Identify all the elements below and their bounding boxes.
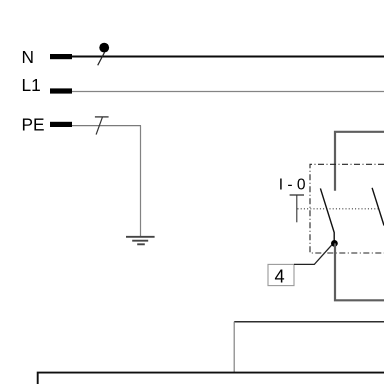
terminal bar PE (50, 122, 72, 127)
wire N (72, 56, 384, 58)
actuator handle bar (290, 194, 304, 196)
svg-text:PE: PE (22, 115, 45, 135)
svg-text:N: N (22, 47, 34, 67)
svg-text:I - 0: I - 0 (279, 177, 306, 194)
PE conductor mark slash (96, 117, 102, 134)
wire mid feeder (234, 321, 384, 323)
switch Q1 blade pole 2 (372, 188, 384, 226)
switch Q1 blade pole 1 (320, 188, 334, 241)
wire switch Q1 top terminal (335, 132, 384, 191)
switch Q1 enclosure (dash-dot box) (310, 164, 384, 253)
junction dot on N (99, 43, 109, 53)
wire switch Q1 bottom terminal (335, 243, 384, 300)
svg-text:4: 4 (275, 266, 285, 287)
mechanical linkage (dotted) (298, 208, 380, 210)
ground symbol (126, 237, 155, 245)
junction dot at Q1 pole 1 pivot (331, 240, 338, 247)
wire PE vertical (140, 126, 142, 237)
svg-text:L1: L1 (22, 75, 41, 95)
terminal bar N (50, 54, 72, 59)
branch slash on N (98, 52, 105, 65)
wire mid feeder drop (233, 322, 235, 373)
PE conductor mark bar (95, 116, 109, 118)
wire PE horizontal (72, 125, 141, 127)
leader line from label 4 to junction (294, 245, 332, 265)
terminal label box 4 (268, 264, 294, 285)
terminal bar L1 (50, 88, 72, 93)
wire L1 (72, 91, 384, 93)
actuator handle stem (296, 195, 298, 222)
wire bottom feeder (38, 373, 384, 384)
